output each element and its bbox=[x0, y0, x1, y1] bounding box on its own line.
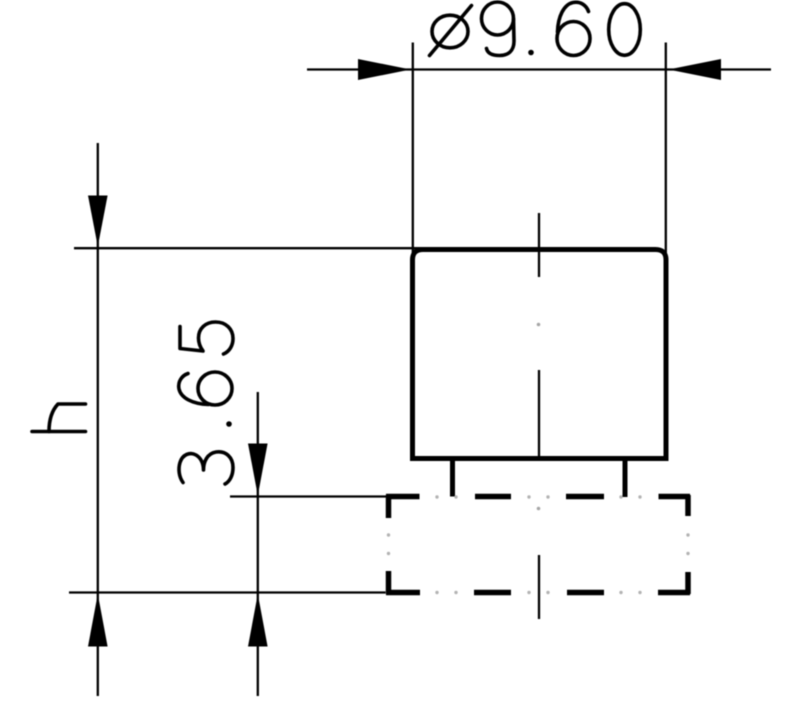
hidden line gap dots bbox=[387, 495, 690, 594]
dimension text 3.65 rotated bbox=[179, 322, 233, 484]
hidden outline dashed box: bottom edge bbox=[386, 571, 690, 594]
glyph decimal point bbox=[226, 421, 232, 427]
glyph 5 bbox=[180, 322, 233, 354]
glyph 3 bbox=[179, 452, 233, 484]
h dimension arrow up bbox=[88, 594, 108, 647]
hidden outline dashed box: top edge bbox=[386, 495, 690, 518]
glyph 9 bbox=[482, 2, 515, 56]
h dimension line bbox=[97, 143, 99, 696]
h dimension top extension line bbox=[74, 247, 427, 249]
dimension text Ø9.60 bbox=[430, 2, 641, 56]
dimension text h rotated bbox=[32, 404, 86, 432]
3.65 dimension arrow down bbox=[248, 444, 268, 496]
glyph 6 bbox=[557, 2, 590, 55]
vertical centerline segments bbox=[538, 213, 540, 277]
3.65 dimension top extension line bbox=[230, 495, 387, 497]
centerline dots bbox=[537, 323, 541, 511]
pin 2 lead bbox=[623, 459, 628, 497]
h dimension bottom extension line bbox=[69, 591, 386, 593]
diameter dimension arrow right bbox=[669, 59, 722, 80]
h dimension arrow down bbox=[88, 196, 108, 247]
diameter dimension arrow left bbox=[358, 59, 411, 80]
diameter dimension extension line left bbox=[412, 43, 414, 263]
3.65 dimension arrow up bbox=[248, 594, 268, 647]
pin 1 lead bbox=[450, 459, 455, 497]
component body outline bbox=[413, 250, 667, 459]
glyph decimal point bbox=[528, 50, 534, 56]
glyph diameter sign bbox=[430, 6, 472, 56]
diameter dimension extension line right bbox=[665, 43, 667, 263]
diameter dimension line bbox=[307, 68, 771, 70]
3.65 dimension line bbox=[257, 392, 259, 696]
glyph 6 bbox=[179, 372, 232, 405]
glyph 0 bbox=[609, 4, 641, 56]
